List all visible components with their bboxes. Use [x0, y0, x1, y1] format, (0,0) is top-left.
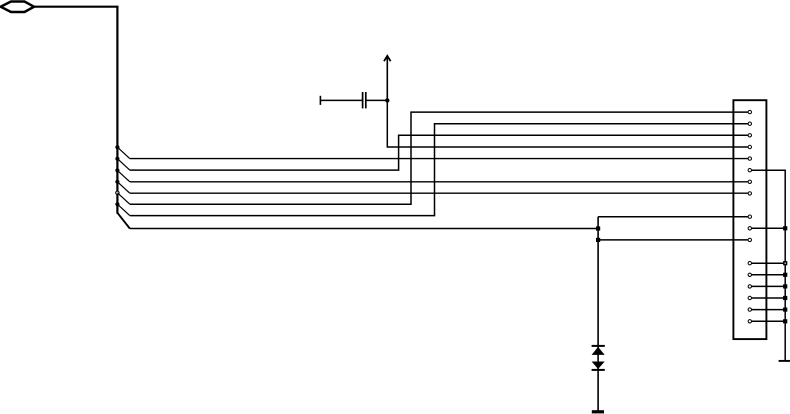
- capacitor C1 right lead: [366, 99, 388, 101]
- junction node cap: [385, 98, 389, 102]
- pin 14: [748, 262, 751, 265]
- capacitor C1 left lead tick: [319, 96, 321, 105]
- wire pin 17 to bus: [752, 297, 786, 299]
- right bus end tick: [779, 360, 790, 362]
- wire entry diagonal node 1: [117, 147, 129, 158]
- wire 3 to pin row6: [130, 181, 748, 183]
- pin 11: [748, 227, 751, 230]
- pin 10: [748, 215, 751, 218]
- pin 8: [748, 192, 751, 195]
- wire pin row5 to right bus: [752, 170, 786, 361]
- junction node 4: [115, 180, 119, 184]
- wire pin 18 to bus: [752, 309, 786, 311]
- pin 17: [748, 296, 751, 299]
- diode D1: [592, 347, 605, 355]
- junction bus pin 14: [783, 261, 787, 265]
- pin 2: [748, 122, 751, 125]
- connector J1 body: [733, 100, 766, 339]
- junction node 6: [115, 202, 119, 206]
- junction node 5: [116, 191, 119, 194]
- wire port to bus corner: [34, 7, 117, 214]
- wire 2 lower run: [130, 135, 748, 170]
- diode D1 cathode bar: [592, 345, 605, 347]
- pin 16: [748, 285, 751, 288]
- wire pin 14 to bus: [752, 262, 786, 264]
- capacitor C1 plates: [362, 92, 364, 108]
- pin 3: [748, 134, 751, 137]
- pin 19: [748, 320, 751, 323]
- junction node 3: [115, 168, 119, 172]
- pin 12: [748, 238, 751, 241]
- wire 4 to pin row7: [130, 192, 748, 194]
- junction bus pin 15: [783, 273, 787, 277]
- capacitor C1 left lead: [320, 99, 362, 101]
- junction bus pin 17: [783, 296, 787, 300]
- wire pin 16 to bus: [752, 285, 786, 287]
- wire entry diagonal node 6: [117, 204, 129, 215]
- wire 7 to diode node: [130, 228, 598, 230]
- junction node 1: [115, 145, 119, 149]
- power arrow VCC: [386, 56, 388, 100]
- wire diode node to pin row9: [598, 216, 748, 218]
- junction node 2: [115, 157, 119, 161]
- wire cap node to pin row3: [387, 100, 748, 147]
- wire entry diagonal node 5: [117, 193, 129, 204]
- junction bus pin 16: [783, 284, 787, 288]
- wire entry diagonal node 4: [117, 182, 129, 193]
- junction diode node row11: [596, 238, 600, 242]
- junction bus pin 18: [783, 308, 787, 312]
- wire entry diagonal node 2: [117, 159, 129, 170]
- port P1 (sheet entry): [1, 2, 34, 13]
- wire 1 to pin row4: [130, 158, 748, 160]
- pin 4: [748, 145, 751, 148]
- diode D2 cathode bar: [592, 369, 605, 371]
- terminal tick bottom: [592, 410, 604, 413]
- wire 6 riser run: [130, 124, 748, 216]
- pin 7: [748, 180, 751, 183]
- pin 1: [748, 110, 751, 113]
- pin 6: [748, 169, 751, 172]
- junction diode node w7: [596, 226, 600, 230]
- wire pin 15 to bus: [752, 274, 786, 276]
- junction bus row10: [783, 226, 787, 230]
- pin 5: [748, 157, 751, 160]
- pin 18: [748, 308, 751, 311]
- wire bus bottom bend: [117, 213, 129, 229]
- wire 5 riser run: [130, 112, 748, 204]
- diode D2: [592, 362, 605, 370]
- wire diode column: [597, 217, 599, 411]
- pin 15: [748, 273, 751, 276]
- junction bus pin 19: [783, 319, 787, 323]
- wire entry diagonal node 3: [117, 170, 129, 181]
- wire diode node to pin row11: [598, 239, 748, 241]
- wire pin row10 to bus: [752, 227, 786, 229]
- wire pin 19 to bus: [752, 320, 786, 322]
